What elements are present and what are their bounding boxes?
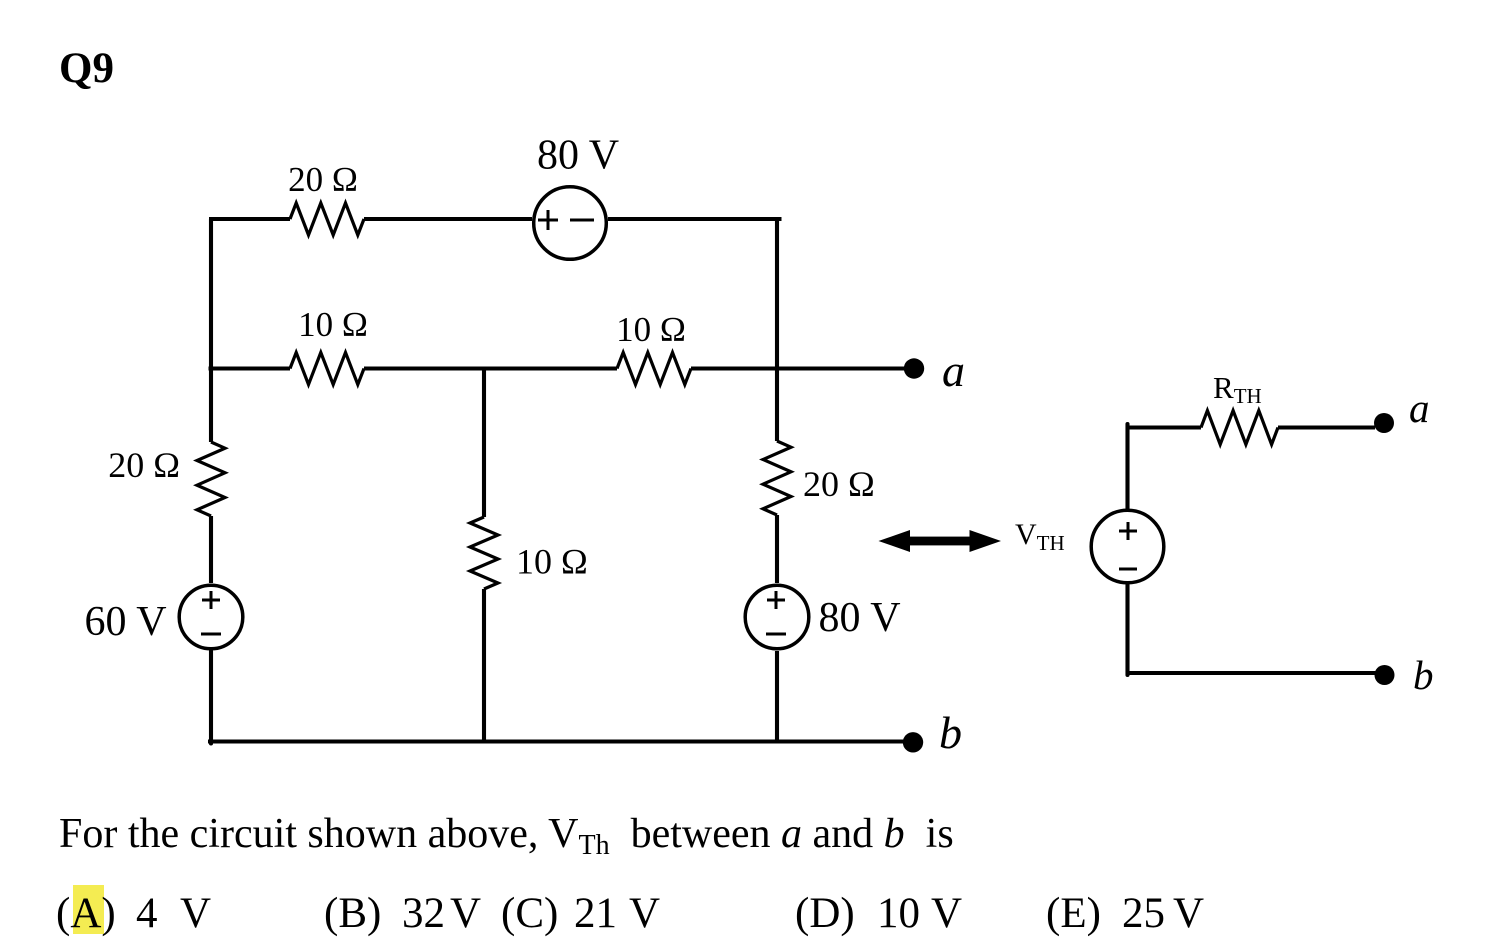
svg-text:10 Ω: 10 Ω (298, 305, 368, 344)
svg-text:(E): (E) (1046, 890, 1101, 937)
svg-text:80 V: 80 V (819, 595, 901, 641)
svg-text:VTH: VTH (1015, 518, 1065, 555)
svg-text:a: a (942, 345, 965, 396)
svg-text:For the circuit shown above, V: For the circuit shown above, VTh between… (59, 811, 954, 861)
svg-text:20 Ω: 20 Ω (803, 464, 875, 504)
svg-text:Q9: Q9 (59, 45, 114, 92)
svg-text:20 Ω: 20 Ω (288, 160, 358, 199)
svg-text:25: 25 (1122, 890, 1165, 937)
svg-text:10 Ω: 10 Ω (516, 542, 588, 582)
svg-text:b: b (1413, 652, 1434, 698)
svg-text:V: V (180, 890, 211, 937)
svg-text:(B): (B) (324, 890, 381, 937)
svg-text:b: b (939, 707, 962, 758)
svg-text:V: V (629, 890, 660, 937)
svg-text:60 V: 60 V (85, 599, 167, 645)
svg-text:20 Ω: 20 Ω (108, 445, 180, 485)
svg-text:(A): (A) (56, 890, 116, 937)
svg-text:32: 32 (402, 890, 445, 937)
svg-text:RTH: RTH (1213, 370, 1262, 408)
svg-text:V: V (1173, 890, 1204, 937)
svg-text:10: 10 (877, 890, 920, 937)
svg-text:10 Ω: 10 Ω (616, 310, 686, 349)
svg-text:a: a (1409, 385, 1430, 431)
svg-text:80 V: 80 V (537, 133, 619, 179)
svg-text:V: V (931, 890, 962, 937)
svg-text:(D): (D) (795, 890, 855, 937)
svg-text:21: 21 (574, 890, 617, 937)
svg-text:4: 4 (136, 890, 158, 937)
svg-text:(C): (C) (501, 890, 558, 937)
svg-text:V: V (450, 890, 481, 937)
